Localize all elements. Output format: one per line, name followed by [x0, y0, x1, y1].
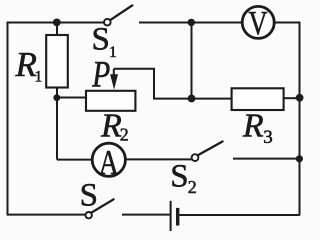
svg-text:A: A — [99, 143, 120, 182]
svg-text:3: 3 — [263, 127, 273, 148]
svg-text:P: P — [91, 55, 110, 96]
svg-text:R: R — [100, 108, 122, 145]
svg-text:S: S — [80, 178, 98, 214]
svg-text:S: S — [92, 22, 110, 58]
svg-text:R: R — [242, 108, 264, 145]
svg-text:S: S — [170, 158, 188, 194]
svg-text:1: 1 — [109, 44, 117, 61]
svg-text:2: 2 — [120, 125, 129, 145]
svg-text:V: V — [248, 5, 267, 42]
svg-text:2: 2 — [188, 177, 197, 197]
svg-text:1: 1 — [34, 69, 42, 86]
